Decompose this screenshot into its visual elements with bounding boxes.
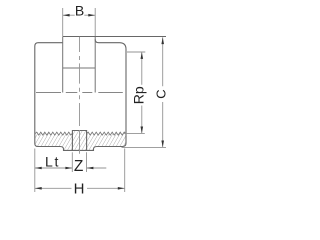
dimension Lt line <box>35 167 73 169</box>
hidden shoulder line (dashed) <box>36 92 123 94</box>
dimension H line <box>35 187 125 189</box>
dimension Rp top extension line <box>127 51 145 53</box>
vertical centerline (dash segments) <box>79 37 81 154</box>
Z arrow <box>87 167 94 170</box>
Rp arrows <box>141 52 144 133</box>
socket boss left edge / bore wall <box>62 37 64 93</box>
B arrows <box>63 14 95 17</box>
Z left extension line <box>71 152 73 172</box>
dimension Z tail line <box>87 167 107 169</box>
body outline <box>35 39 126 150</box>
svg-text:Rp: Rp <box>131 86 147 104</box>
thread crest zigzag left <box>35 132 73 135</box>
svg-text:H: H <box>74 180 85 197</box>
dimension C bottom extension line <box>122 146 167 148</box>
socket boss right edge / bore wall <box>94 37 96 93</box>
C arrows <box>161 37 164 147</box>
dimension B extension lines <box>63 8 95 36</box>
dimension B line <box>63 14 95 16</box>
socket recess bottom line <box>63 67 95 69</box>
center insert block <box>72 131 86 151</box>
svg-text:Lt: Lt <box>45 154 60 170</box>
Z right extension line <box>86 152 88 172</box>
svg-text:Z: Z <box>74 158 83 175</box>
left extension line (H / Lt) <box>34 149 36 193</box>
thread crest zigzag right <box>87 132 126 135</box>
Lt arrows <box>35 167 72 170</box>
dimension C line <box>162 37 164 147</box>
right extension line (H) <box>124 149 126 193</box>
svg-text:C: C <box>154 89 169 98</box>
thread band hatched fill <box>35 131 126 151</box>
dimension Rp line <box>141 52 143 133</box>
svg-text:B: B <box>75 3 84 19</box>
boss top line and C top extension <box>63 36 166 38</box>
H arrows <box>35 187 125 190</box>
dimension Rp bottom extension line <box>123 132 145 134</box>
